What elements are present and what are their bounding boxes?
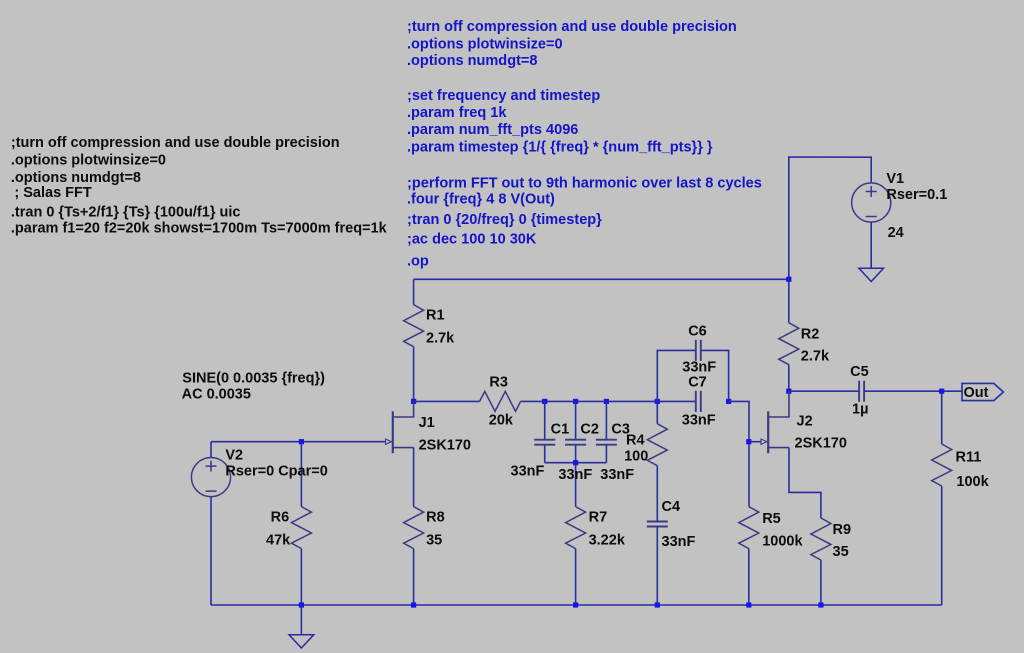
svg-text:;ac dec 100 10 30K: ;ac dec 100 10 30K (407, 232, 537, 248)
node C1 tap (542, 399, 547, 404)
capacitor C3 (605, 401, 607, 439)
svg-text:1000k: 1000k (762, 534, 803, 550)
svg-text:100: 100 (624, 449, 648, 465)
svg-text:2.7k: 2.7k (426, 331, 455, 347)
svg-text:R4: R4 (626, 433, 645, 449)
node rail R5 (746, 602, 751, 607)
svg-text:R1: R1 (426, 308, 445, 324)
wire main node row right (521, 400, 696, 402)
svg-text:V1: V1 (886, 171, 904, 187)
svg-text:.tran 0 {Ts+2/f1} {Ts} {100u/f: .tran 0 {Ts+2/f1} {Ts} {100u/f1} uic (11, 205, 241, 221)
wire C1-C3 bottom bracket (545, 462, 607, 464)
wire V1 branch (789, 157, 871, 279)
svg-text:2SK170: 2SK170 (419, 437, 471, 453)
svg-text:33nF: 33nF (662, 534, 696, 550)
svg-text:C7: C7 (688, 375, 707, 391)
svg-text:1µ: 1µ (852, 401, 868, 417)
node C2 tap (573, 399, 578, 404)
svg-text:R9: R9 (833, 522, 852, 538)
svg-text:.param num_fft_pts 4096: .param num_fft_pts 4096 (407, 122, 578, 138)
resistor R6 (300, 442, 302, 507)
svg-text:33nF: 33nF (558, 467, 592, 483)
wire C6 bracket (657, 350, 696, 401)
svg-text:20k: 20k (489, 412, 514, 428)
svg-text:.options numdgt=8: .options numdgt=8 (407, 53, 538, 69)
capacitor C1 (544, 401, 546, 439)
node R4/C6 tap (655, 399, 660, 404)
node rail R6 (299, 602, 304, 607)
svg-text:.options plotwinsize=0: .options plotwinsize=0 (11, 152, 166, 168)
svg-text:V2: V2 (225, 447, 243, 463)
resistor R8 (413, 448, 415, 507)
svg-text:R2: R2 (801, 326, 820, 342)
svg-text:100k: 100k (956, 474, 989, 490)
node C3 tap (604, 399, 609, 404)
node V2/R6 junction (299, 439, 304, 444)
wire J2 source to R9 (789, 448, 821, 518)
svg-text:R5: R5 (762, 511, 781, 527)
resistor R2 (788, 279, 790, 322)
svg-text:C2: C2 (580, 422, 599, 438)
capacitor C2 (575, 401, 577, 439)
svg-text:;tran 0 {20/freq} 0 {timestep}: ;tran 0 {20/freq} 0 {timestep} (407, 212, 602, 228)
svg-text:.op: .op (407, 254, 429, 270)
node C7 right junction (726, 399, 731, 404)
transistor J1 2SK170 (393, 401, 414, 417)
svg-text:33nF: 33nF (600, 467, 634, 483)
svg-text:33nF: 33nF (682, 359, 716, 375)
flag Out port (962, 383, 1003, 400)
svg-text:Rser=0 Cpar=0: Rser=0 Cpar=0 (225, 463, 327, 479)
svg-text:2SK170: 2SK170 (795, 436, 847, 452)
ground at bottom (289, 635, 314, 648)
svg-text:Rser=0.1: Rser=0.1 (886, 187, 947, 203)
resistor R11 (941, 391, 943, 444)
svg-text:.param freq 1k: .param freq 1k (407, 105, 507, 121)
svg-text:J2: J2 (797, 414, 813, 430)
node rail C4 (655, 602, 660, 607)
capacitor C6 (696, 340, 701, 361)
resistor R3 (480, 391, 521, 411)
wire C5 row (789, 390, 859, 392)
node rail R9 (818, 602, 823, 607)
node rail R7 (573, 602, 578, 607)
voltage source V1 (852, 183, 891, 222)
node J1 drain junction (411, 399, 416, 404)
node bracket / R7 junction (573, 460, 578, 465)
svg-text:35: 35 (833, 544, 849, 560)
wire main node row left (414, 400, 480, 402)
resistor R4 (656, 401, 658, 423)
svg-text:C4: C4 (662, 499, 681, 515)
svg-text:J1: J1 (419, 415, 435, 431)
svg-text:47k: 47k (266, 533, 291, 549)
capacitor C5 (859, 381, 864, 402)
svg-text:R11: R11 (956, 450, 982, 466)
directive text block center (blue) (407, 19, 762, 270)
node junction top rail / V1 / R2 (786, 277, 791, 282)
svg-text:;set frequency and timestep: ;set frequency and timestep (407, 88, 600, 104)
svg-text:Out: Out (964, 385, 989, 401)
svg-text:3.22k: 3.22k (589, 533, 626, 549)
node J2 drain junction (786, 389, 791, 394)
wire C7 right to J2 gate column (729, 401, 749, 506)
node rail R8 (411, 602, 416, 607)
svg-text:C6: C6 (688, 323, 707, 339)
wire V1 to ground (870, 222, 872, 268)
svg-text:C5: C5 (850, 364, 869, 380)
node J2 gate junction (746, 439, 751, 444)
wire ground stub (300, 605, 302, 635)
capacitor C4 (647, 522, 668, 527)
svg-text:;turn off compression and use: ;turn off compression and use double pre… (407, 19, 737, 35)
svg-text:33nF: 33nF (682, 413, 716, 429)
node Out junction (939, 389, 944, 394)
svg-text:35: 35 (426, 533, 442, 549)
svg-text:AC 0.0035: AC 0.0035 (182, 387, 251, 403)
svg-text:.options numdgt=8: .options numdgt=8 (11, 170, 141, 186)
svg-text:.param timestep {1/{ {freq} *: .param timestep {1/{ {freq} * {num_fft_p… (407, 140, 713, 156)
svg-text:R8: R8 (426, 509, 445, 525)
wire J2 gate lead (749, 441, 761, 443)
svg-text:;perform FFT out to 9th harmon: ;perform FFT out to 9th harmonic over la… (407, 176, 762, 192)
directive text block left (black) (11, 135, 388, 236)
wire top supply rail (414, 278, 789, 280)
transistor J2 2SK170 (768, 391, 789, 417)
voltage source V2 (210, 442, 212, 458)
svg-text:SINE(0 0.0035 {freq}): SINE(0 0.0035 {freq}) (182, 370, 325, 386)
svg-text:C1: C1 (551, 422, 570, 438)
svg-text:; Salas FFT: ; Salas FFT (14, 185, 91, 201)
svg-text:R6: R6 (271, 509, 290, 525)
ground at V1 (859, 268, 884, 281)
resistor R9 (811, 518, 831, 560)
svg-text:R3: R3 (489, 374, 508, 390)
svg-text:.param f1=20 f2=20k showst=170: .param f1=20 f2=20k showst=1700m Ts=7000… (11, 220, 388, 236)
svg-text:.four {freq} 4 8 V(Out): .four {freq} 4 8 V(Out) (407, 192, 555, 208)
resistor R1 (413, 279, 415, 304)
wire bottom ground rail (211, 604, 942, 606)
resistor R7 (575, 463, 577, 507)
svg-text:24: 24 (888, 225, 904, 241)
svg-text:;turn off compression and use: ;turn off compression and use double pre… (11, 135, 340, 151)
resistor R5 (739, 507, 759, 549)
svg-text:.options plotwinsize=0: .options plotwinsize=0 (407, 36, 563, 52)
svg-text:33nF: 33nF (511, 464, 545, 480)
capacitor C7 (696, 391, 701, 412)
svg-text:2.7k: 2.7k (801, 349, 830, 365)
svg-text:R7: R7 (589, 509, 608, 525)
wire J1 gate row from V2 (211, 441, 385, 443)
